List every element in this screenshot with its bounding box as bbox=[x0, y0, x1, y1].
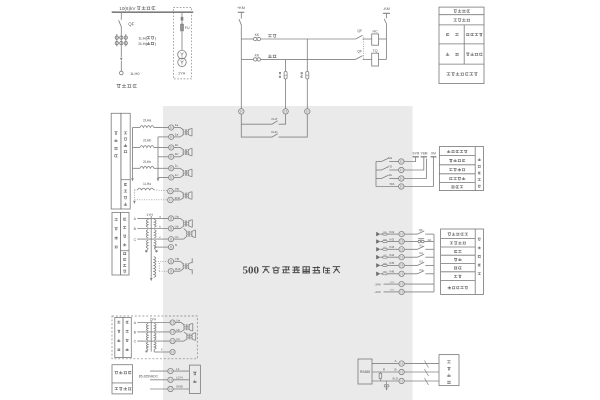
label box protection current / zero-seq current bbox=[121, 113, 130, 209]
svg-text:RS485: RS485 bbox=[360, 370, 370, 374]
wire 2LHa to terminal bbox=[133, 127, 169, 129]
signal contact JG bbox=[376, 173, 399, 179]
terminal circle 3U0 bbox=[168, 267, 181, 274]
closing coil HC bbox=[372, 29, 387, 45]
terminal circle IN1 bbox=[399, 231, 404, 236]
internal CT input 2LHa bbox=[174, 128, 192, 137]
dashed zero seq wires bbox=[133, 190, 168, 204]
terminal circle 485B bbox=[399, 369, 404, 374]
terminal circle Ub bbox=[168, 224, 178, 231]
dashed zero-seq voltage wires bbox=[155, 261, 168, 271]
box working power / device ground bbox=[112, 365, 133, 394]
svg-text:B: B bbox=[394, 367, 396, 371]
label IN3 bbox=[387, 245, 399, 249]
svg-text:85-265VADC: 85-265VADC bbox=[139, 375, 159, 379]
terminal circle Ua bbox=[168, 214, 178, 221]
signal bus YBM bbox=[421, 152, 428, 159]
table text closing coil bbox=[466, 33, 482, 36]
alt label box measuring voltage bbox=[123, 318, 131, 358]
optocoupler IN1 bbox=[377, 232, 381, 236]
-24V common row 2 bbox=[374, 290, 399, 294]
svg-text:QF: QF bbox=[357, 50, 362, 54]
table text signal bus bbox=[447, 150, 467, 153]
communication interface box bbox=[439, 355, 459, 386]
breaker QF bbox=[119, 12, 135, 34]
svg-text:Uc: Uc bbox=[176, 337, 180, 341]
opto common vertical wire bbox=[433, 234, 435, 292]
cable shield ground symbol bbox=[384, 381, 389, 391]
svg-text:IN4: IN4 bbox=[389, 253, 394, 257]
wire L1 bbox=[150, 370, 168, 372]
zero sequence CT coil bbox=[138, 188, 154, 190]
CT 1LH (metering) and 2LH (protection) bbox=[115, 34, 127, 46]
external contact X3 bbox=[404, 259, 434, 265]
alt terminal circle Ub bbox=[170, 328, 180, 335]
table text control bus bbox=[453, 9, 469, 12]
terminal circle zero-seq return bbox=[168, 196, 181, 203]
wire +KM vertical bbox=[240, 25, 242, 109]
svg-text:QF: QF bbox=[357, 29, 362, 33]
svg-text:A: A bbox=[134, 321, 137, 325]
label IN2 bbox=[387, 237, 399, 241]
svg-text:2LH(: 2LH( bbox=[138, 41, 147, 46]
svg-text:Uc: Uc bbox=[175, 235, 179, 239]
label open bbox=[268, 54, 276, 57]
svg-text:2YH: 2YH bbox=[150, 318, 157, 322]
terminal circle phase 2LHb in bbox=[169, 143, 179, 150]
terminal circle L1 bbox=[168, 367, 180, 374]
svg-text:QF: QF bbox=[128, 22, 134, 27]
svg-text:A: A bbox=[394, 359, 396, 363]
terminal circle YB bbox=[168, 257, 179, 264]
input resistor IN4 bbox=[380, 255, 387, 258]
feeder wire with arrow bbox=[120, 46, 123, 71]
table column to signal panel bbox=[478, 158, 481, 187]
wire 485 SLD bbox=[372, 376, 399, 381]
comm wires to interface bbox=[404, 361, 439, 386]
CT star common wire with arrow bbox=[131, 128, 134, 182]
table text manual trip bbox=[446, 53, 459, 56]
svg-text:HC: HC bbox=[372, 29, 378, 33]
table text input common bbox=[448, 286, 468, 289]
table text spare 1 bbox=[454, 250, 461, 252]
wire fuse to PT bbox=[181, 31, 183, 50]
svg-text:GND: GND bbox=[176, 385, 184, 389]
QF aux contact close bbox=[356, 29, 372, 39]
svg-text:B: B bbox=[134, 227, 137, 231]
external contact QF position bbox=[404, 228, 434, 234]
svg-text:c: c bbox=[159, 235, 161, 239]
svg-text:-24V: -24V bbox=[374, 290, 381, 294]
PT feeder tap bbox=[181, 12, 183, 24]
svg-text:SG: SG bbox=[388, 156, 393, 160]
CT return common wire with arrow bbox=[157, 137, 160, 182]
svg-text:IN5: IN5 bbox=[389, 261, 394, 265]
svg-text:Ua: Ua bbox=[176, 318, 180, 322]
svg-text:Ub: Ub bbox=[175, 224, 179, 228]
label IN5 bbox=[387, 261, 399, 265]
table text common bbox=[451, 186, 463, 188]
terminal circle zero-seq in bbox=[168, 187, 179, 194]
svg-text:1YH: 1YH bbox=[146, 213, 153, 217]
terminal circle signal common bbox=[399, 184, 404, 189]
svg-text:X: X bbox=[161, 348, 163, 352]
wire 485 B bbox=[372, 367, 399, 372]
alt internal PT 2 bbox=[175, 332, 196, 341]
svg-text:L1: L1 bbox=[176, 367, 180, 371]
svg-text:IN3: IN3 bbox=[389, 245, 394, 249]
optocoupler IN6 bbox=[377, 272, 381, 276]
contact KK close bbox=[241, 33, 355, 41]
CT coil 2LHc bbox=[140, 160, 154, 168]
svg-text:IN6: IN6 bbox=[389, 270, 394, 274]
svg-text:a: a bbox=[159, 214, 161, 218]
table text spare 4 bbox=[454, 275, 462, 278]
terminal circle IN3 bbox=[399, 247, 404, 252]
internal PT zero-seq bbox=[174, 258, 193, 274]
zero sequence CT 1LH0 label bbox=[143, 182, 151, 186]
alt internal PT 1 bbox=[175, 323, 193, 332]
external contact X1 bbox=[404, 243, 434, 249]
svg-text:XM: XM bbox=[431, 152, 436, 156]
terminal node control + bbox=[239, 109, 244, 114]
wire branch TWJ bbox=[279, 59, 287, 108]
label box measuring voltage / zero-seq voltage bbox=[121, 212, 130, 275]
alt X neutral wire bbox=[154, 348, 170, 352]
external contact X4 bbox=[404, 268, 434, 274]
table text breaker position bbox=[448, 232, 468, 235]
svg-text:SLD: SLD bbox=[392, 376, 398, 380]
table text trip coil bbox=[466, 53, 482, 56]
svg-text:IN2: IN2 bbox=[389, 237, 394, 241]
svg-text:KHT: KHT bbox=[272, 117, 278, 121]
CT coil 2LHb bbox=[140, 139, 154, 148]
terminal circle SLD bbox=[399, 378, 404, 383]
bus 10kV bbox=[112, 11, 194, 13]
alt terminal circle Ua bbox=[170, 318, 180, 325]
svg-text:SYM: SYM bbox=[412, 152, 419, 156]
table switching input bbox=[441, 229, 484, 294]
matching resistor R bbox=[379, 367, 386, 381]
title 500 microcomputer protection device bbox=[243, 264, 341, 276]
label 1LH metering bbox=[138, 35, 157, 40]
QF aux contact trip bbox=[356, 50, 372, 60]
alt PT windings bbox=[146, 323, 156, 349]
external contact X2 bbox=[404, 251, 434, 257]
device body shaded panel bbox=[163, 106, 413, 400]
terminal circle L2N bbox=[168, 376, 183, 383]
wire branch HWJ bbox=[301, 39, 309, 109]
table signal bbox=[439, 147, 483, 191]
signal contact YG bbox=[376, 164, 399, 170]
fuse FU bbox=[181, 24, 190, 31]
table text strap row bbox=[447, 72, 478, 75]
wire signal 3 to bus bbox=[404, 159, 426, 179]
PT windings bbox=[146, 218, 156, 248]
svg-text:1LH(: 1LH( bbox=[138, 35, 147, 40]
table text spare 3 bbox=[454, 267, 462, 269]
RS485 module box bbox=[358, 359, 372, 384]
table column switching input bbox=[478, 238, 481, 275]
svg-text:YB: YB bbox=[175, 257, 179, 261]
table text spare 2 bbox=[454, 258, 462, 261]
wire COM2 bbox=[404, 291, 434, 293]
power -KM bbox=[383, 7, 390, 18]
svg-text:-24V: -24V bbox=[374, 282, 381, 286]
alt PT ground bbox=[145, 349, 148, 352]
svg-text:C: C bbox=[134, 340, 137, 344]
svg-text:): ) bbox=[155, 41, 157, 46]
wire 2LHb to terminal bbox=[133, 147, 169, 149]
secondary tap labels bbox=[159, 214, 161, 239]
svg-text:1YH: 1YH bbox=[178, 72, 186, 76]
svg-text:2LHa: 2LHa bbox=[143, 119, 151, 123]
table text warning signal bbox=[449, 168, 465, 171]
terminal circle signal 2 bbox=[399, 167, 404, 172]
terminal circle phase 2LHc in bbox=[169, 164, 179, 171]
signal contact SG bbox=[376, 156, 399, 162]
dashed enclosure alternative PT bbox=[112, 316, 197, 359]
power module box bbox=[189, 365, 200, 393]
svg-text:KK: KK bbox=[255, 53, 260, 57]
terminal circle phase 2LHa return bbox=[169, 132, 180, 139]
svg-text:-KM: -KM bbox=[383, 7, 390, 11]
terminal circle COM1 bbox=[399, 281, 404, 286]
svg-text:1c': 1c' bbox=[175, 173, 179, 177]
switch on +KM bbox=[239, 19, 241, 25]
alt phase wires A B C bbox=[134, 321, 170, 344]
svg-text:Ub: Ub bbox=[176, 328, 180, 332]
PT primary ground bbox=[145, 248, 148, 252]
optocoupler IN4 bbox=[377, 255, 381, 259]
wire return 2LHa bbox=[158, 136, 169, 138]
internal CT input 2LHc bbox=[174, 168, 192, 177]
PT core bbox=[150, 216, 152, 278]
label IN4 bbox=[387, 253, 399, 257]
wire GND bbox=[150, 388, 168, 390]
svg-text:+KM: +KM bbox=[237, 6, 245, 10]
svg-text:FU: FU bbox=[185, 26, 190, 30]
svg-text:1a: 1a bbox=[175, 123, 179, 127]
label IN1 bbox=[387, 230, 399, 234]
internal CT zero-seq bbox=[173, 191, 192, 200]
svg-text:XM-: XM- bbox=[390, 182, 396, 186]
wire L2N bbox=[150, 379, 168, 381]
table text manual close bbox=[446, 33, 458, 35]
wire return 2LHc bbox=[158, 177, 169, 179]
table text device fault bbox=[450, 177, 466, 180]
svg-text:): ) bbox=[155, 35, 157, 40]
table text air switch bbox=[453, 18, 469, 21]
svg-text:C: C bbox=[134, 238, 137, 242]
terminal circle IN5 bbox=[399, 263, 404, 268]
wires into power box bbox=[173, 371, 189, 389]
trip coil TQ bbox=[372, 49, 387, 66]
svg-text:YBM: YBM bbox=[421, 152, 428, 156]
svg-text:10(6)kV: 10(6)kV bbox=[119, 6, 136, 11]
svg-text:JG: JG bbox=[388, 173, 393, 177]
wire signal common to bus XM bbox=[404, 159, 433, 187]
label close bbox=[268, 34, 276, 37]
svg-text:2LHc: 2LHc bbox=[143, 160, 151, 164]
wire COM1 bbox=[404, 283, 434, 285]
PT secondary ground bbox=[154, 248, 158, 252]
internal contact KHT bbox=[241, 114, 285, 124]
optocoupler IN2 bbox=[377, 240, 381, 244]
PT 1YH secondary label bbox=[146, 213, 153, 217]
svg-text:1a': 1a' bbox=[175, 132, 179, 136]
terminal circle IN2 bbox=[399, 239, 404, 244]
contact KK open bbox=[241, 53, 355, 61]
signal common wire bbox=[375, 162, 377, 187]
input resistor IN1 bbox=[380, 232, 387, 235]
svg-text:1LH0: 1LH0 bbox=[130, 71, 140, 76]
optocoupler IN5 bbox=[377, 263, 381, 267]
svg-text:1LHo: 1LHo bbox=[143, 182, 151, 186]
table text accident signal bbox=[449, 159, 465, 162]
wire signal 2 to bus bbox=[404, 159, 424, 170]
svg-text:1b': 1b' bbox=[175, 152, 179, 156]
bus 10(6)kV label bbox=[119, 6, 155, 11]
svg-text:3U0: 3U0 bbox=[175, 267, 181, 271]
svg-text:2LHb: 2LHb bbox=[143, 139, 151, 143]
QF mechanical link dashed bbox=[363, 37, 365, 60]
svg-text:KHC: KHC bbox=[271, 130, 278, 134]
-24V common row 1 bbox=[374, 282, 399, 286]
alt terminal circle Uc bbox=[170, 337, 180, 344]
svg-text:1b: 1b bbox=[175, 143, 179, 147]
terminal circle Uc bbox=[168, 235, 178, 242]
alt terminal circle N bbox=[170, 349, 175, 354]
signal bus XM bbox=[431, 152, 437, 159]
svg-text:B: B bbox=[134, 331, 137, 335]
alt PT 2YH label bbox=[150, 318, 157, 322]
alt PT core bbox=[150, 320, 152, 351]
CT coil 2LHa bbox=[140, 119, 154, 128]
signal bus SYM bbox=[412, 152, 419, 159]
svg-text:L2-N: L2-N bbox=[176, 376, 183, 380]
caption main wiring diagram bbox=[117, 84, 137, 88]
internal PT 1 bbox=[174, 218, 193, 228]
terminal circle GND bbox=[168, 385, 184, 392]
svg-text:YB: YB bbox=[175, 187, 179, 191]
internal CT input 2LHb bbox=[174, 148, 192, 157]
internal PT 2 bbox=[174, 229, 196, 240]
PT dashed enclosure bbox=[173, 8, 191, 79]
switch on -KM bbox=[384, 19, 386, 24]
svg-text:3U0: 3U0 bbox=[175, 196, 181, 200]
label box current circuit bbox=[111, 113, 121, 209]
terminal circle N bbox=[168, 243, 177, 250]
label 85-265VADC bbox=[139, 375, 159, 379]
svg-text:KK: KK bbox=[255, 33, 260, 37]
terminal circle COM2 bbox=[399, 289, 404, 294]
input resistor IN6 bbox=[380, 272, 387, 275]
svg-text:IN1: IN1 bbox=[389, 230, 394, 234]
wire 485 A bbox=[372, 359, 399, 364]
phase wires A B C to terminals bbox=[134, 217, 169, 242]
alt label box voltage circuit bbox=[115, 318, 123, 358]
svg-text:1c: 1c bbox=[175, 164, 179, 168]
terminal circle IN6 bbox=[399, 271, 404, 276]
terminal circle 1LH0 bbox=[120, 71, 141, 76]
wire -KM vertical bbox=[385, 24, 387, 59]
voltage transformer 1YH bbox=[178, 50, 187, 75]
svg-text:b: b bbox=[159, 225, 161, 229]
input resistor IN2 bbox=[380, 239, 387, 242]
svg-text:N: N bbox=[175, 243, 177, 247]
svg-text:Ua: Ua bbox=[175, 214, 179, 218]
wire signal 1 to bus bbox=[404, 159, 416, 162]
terminal circle IN4 bbox=[399, 255, 404, 260]
label IN6 bbox=[387, 270, 399, 274]
input resistor IN3 bbox=[380, 247, 387, 250]
terminal circle signal 1 bbox=[399, 159, 404, 164]
terminal circle 485A bbox=[399, 361, 404, 366]
terminal circle signal 3 bbox=[399, 176, 404, 181]
terminal node manual trip bbox=[305, 109, 310, 114]
terminal node manual close bbox=[283, 109, 288, 114]
wire return 2LHb bbox=[158, 156, 169, 158]
terminal circle phase 2LHb return bbox=[169, 152, 180, 159]
zero sequence PT winding bbox=[150, 257, 156, 282]
svg-text:TQ: TQ bbox=[373, 49, 378, 53]
svg-text:A: A bbox=[134, 217, 137, 221]
input resistor IN5 bbox=[380, 263, 387, 266]
svg-text:YG: YG bbox=[388, 164, 393, 168]
table control notes bbox=[439, 7, 484, 84]
external pushbutton FA bbox=[404, 238, 434, 243]
table text signal reset bbox=[450, 241, 466, 244]
terminal circle phase 2LHa in bbox=[169, 123, 179, 130]
wire 2LHc to terminal bbox=[133, 167, 169, 169]
optocoupler IN3 bbox=[377, 247, 381, 251]
terminal circle phase 2LHc return bbox=[169, 173, 179, 180]
label box voltage circuit bbox=[112, 212, 121, 275]
label 2LH protection bbox=[138, 41, 157, 46]
svg-text:500: 500 bbox=[243, 264, 260, 276]
power +KM bbox=[237, 6, 245, 19]
wire neutral N bbox=[154, 246, 168, 248]
internal contact KHC bbox=[241, 114, 307, 137]
signal common XM- wire bbox=[376, 182, 399, 186]
